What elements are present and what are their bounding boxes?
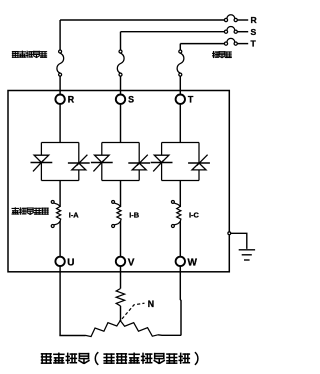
SCR VA1 (forward): [31, 155, 53, 171]
junction on enclosure right edge: [228, 232, 231, 235]
wire R rail to fuse FU1: [59, 20, 61, 50]
label W terminal: [188, 257, 198, 268]
star point node N junction: [119, 320, 121, 322]
thyristor module B outline: [102, 143, 139, 181]
label T terminal: [188, 95, 194, 105]
svg-text:I-C: I-C: [189, 210, 200, 219]
label I-C: [189, 210, 200, 219]
wire bottom left corner: [60, 334, 85, 337]
terminal node V: [116, 257, 125, 266]
current transformer CT-A: [51, 200, 60, 227]
wire fuse FU2 to terminal S: [120, 76, 122, 95]
SCR VB1 (forward): [91, 155, 113, 171]
label S terminal: [128, 95, 134, 105]
wire terminal R to thyristor module: [59, 104, 61, 143]
terminal node S: [116, 95, 125, 104]
wire T-phase supply rail: [180, 43, 224, 45]
svg-text:I-B: I-B: [129, 210, 139, 219]
label T: [251, 39, 257, 49]
svg-text:U: U: [67, 257, 74, 268]
resistor RW (right load): [121, 322, 158, 337]
label N: [148, 299, 154, 309]
label R: [251, 15, 258, 25]
wire module A to CT: [59, 181, 61, 208]
wire R-phase supply rail: [60, 19, 224, 21]
wire terminal T to thyristor module: [179, 104, 181, 143]
wire junction to ground: [231, 233, 247, 249]
SCR VB2 (reverse): [128, 155, 150, 170]
wire terminal S to thyristor module: [120, 104, 122, 143]
fuse FU2 (fast-acting): [117, 50, 124, 76]
label S: [251, 27, 257, 37]
wire CT-B to terminal: [120, 221, 122, 257]
svg-text:I-A: I-A: [69, 210, 80, 219]
caption 星形接法（中心点可以接零） (star connection, centre may be earthed): [42, 352, 198, 365]
wire fuse FU3 to terminal T: [179, 76, 181, 95]
resistor RV (middle load): [116, 289, 124, 306]
svg-text:T: T: [251, 39, 257, 49]
fuse FU3 (fast-acting): [177, 50, 184, 76]
circuit breaker pole T: [224, 38, 248, 45]
dashed lead to neutral N: [122, 303, 145, 319]
svg-text:S: S: [251, 27, 257, 37]
svg-text:T: T: [188, 95, 194, 105]
current transformer CT-B: [112, 200, 121, 227]
terminal node T: [176, 95, 185, 104]
svg-text:W: W: [188, 257, 198, 268]
SCR VC2 (reverse): [188, 155, 210, 170]
circuit breaker pole R: [224, 15, 248, 22]
wire terminal V down: [120, 266, 122, 288]
svg-text:V: V: [128, 257, 135, 268]
wire terminal U down: [59, 266, 61, 335]
wire S rail to fuse FU2: [120, 32, 122, 51]
label U terminal: [67, 257, 74, 268]
terminal node W: [176, 257, 185, 266]
thyristor module A outline: [41, 143, 78, 181]
wire bottom right corner: [158, 334, 181, 337]
SCR VC1 (forward): [151, 155, 173, 171]
wire resistor RV to star point: [120, 306, 122, 321]
wire terminal W down: [179, 266, 182, 335]
label 断路器 (circuit breaker): [213, 52, 232, 58]
label 电流互感器 (current transformer): [12, 208, 48, 214]
svg-text:R: R: [251, 15, 258, 25]
ground symbol: [239, 250, 255, 260]
thyristor module C outline: [162, 143, 199, 181]
label 快速熔断器 (fast fuse): [12, 51, 46, 57]
wire CT-A to terminal: [59, 221, 61, 257]
wire module C to CT: [179, 181, 181, 208]
wire CT-C to terminal: [179, 221, 181, 257]
label R terminal: [68, 95, 75, 105]
wire S-phase supply rail: [121, 31, 225, 33]
wire fuse FU1 to terminal R: [59, 76, 61, 95]
label V terminal: [128, 257, 135, 268]
svg-text:N: N: [148, 299, 154, 309]
terminal node R: [55, 95, 64, 104]
svg-text:R: R: [68, 95, 75, 105]
terminal node U: [55, 257, 64, 266]
label I-A: [69, 210, 80, 219]
circuit breaker pole S: [224, 26, 248, 33]
enclosure box (thyristor power unit): [8, 91, 229, 272]
resistor RU (left load): [86, 321, 120, 336]
fuse FU1 (fast-acting): [57, 50, 64, 76]
wire module B to CT: [120, 181, 122, 208]
label I-B: [129, 210, 139, 219]
wire T rail to fuse FU3: [179, 44, 181, 51]
SCR VA2 (reverse): [68, 155, 90, 170]
svg-text:S: S: [128, 95, 134, 105]
current transformer CT-C: [171, 200, 180, 227]
